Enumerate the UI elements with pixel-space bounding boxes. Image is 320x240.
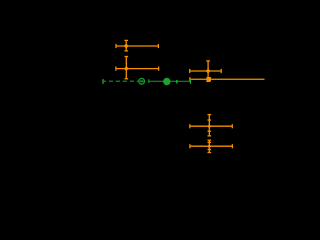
C right cap	[220, 69, 222, 73]
D left cap	[189, 77, 191, 81]
G tick marker	[176, 80, 178, 84]
A bottom cap	[124, 50, 128, 52]
G right cap	[189, 79, 191, 84]
G filled circle marker	[163, 78, 170, 85]
errorbar point D (square marker, long right line)	[190, 77, 265, 81]
errorbar point A (top-left orange)	[116, 40, 158, 51]
wire C x-error bar	[190, 70, 222, 72]
E1 diamond marker	[207, 124, 211, 128]
A top cap	[124, 39, 128, 41]
wire A x-error bar	[116, 45, 158, 47]
wire C y-error bar	[207, 61, 209, 82]
G left cap	[102, 79, 104, 84]
C diamond marker	[206, 69, 211, 74]
E1 right cap	[231, 124, 233, 128]
errorbar point C (right orange cluster upper)	[190, 61, 222, 82]
wire G dashed segment	[103, 80, 138, 82]
errorbar point B (second orange, below A)	[116, 57, 159, 79]
E1 outer bottom cap	[208, 135, 212, 137]
E1 outer top cap	[208, 114, 212, 116]
D square marker	[207, 77, 212, 82]
E2 inner bottom cap	[208, 149, 212, 151]
E2 outer top cap	[208, 139, 212, 141]
wire E2 y-error bar	[208, 140, 210, 152]
wire E2 x-error bar	[190, 145, 233, 147]
wire A y-error bar	[125, 40, 127, 51]
E2 left cap	[189, 144, 191, 148]
wire D x line	[190, 78, 265, 80]
G mid cap	[148, 79, 150, 83]
C bottom cap	[206, 80, 210, 82]
G open circle marker	[139, 78, 145, 84]
B right cap	[158, 67, 160, 71]
A right cap	[157, 44, 159, 48]
B top cap	[125, 56, 129, 58]
A diamond marker	[124, 44, 129, 49]
E2 inner top cap	[208, 141, 212, 143]
C top cap	[206, 60, 210, 62]
errorbar point E1 (bottom-right upper)	[190, 115, 233, 136]
E2 outer bottom cap	[208, 152, 212, 154]
wire B x-error bar	[116, 68, 159, 70]
E1 inner top cap	[208, 119, 212, 121]
wire B y-error bar	[125, 57, 127, 79]
E2 diamond marker	[207, 144, 211, 148]
C left cap	[189, 69, 191, 73]
A left cap	[115, 44, 117, 48]
E2 right cap	[231, 144, 233, 148]
errorbar point E2 (bottom-right lower)	[190, 140, 233, 152]
wire E1 x-error bar	[190, 125, 233, 127]
B diamond marker	[124, 66, 129, 71]
E1 left cap	[189, 124, 191, 128]
B bottom cap	[125, 78, 129, 80]
E1 inner bottom cap	[208, 130, 212, 132]
wire G dash inside circle	[140, 80, 144, 82]
wire G solid segment	[149, 80, 191, 82]
wire E1 y-error bar	[208, 115, 210, 136]
B left cap	[115, 67, 117, 71]
